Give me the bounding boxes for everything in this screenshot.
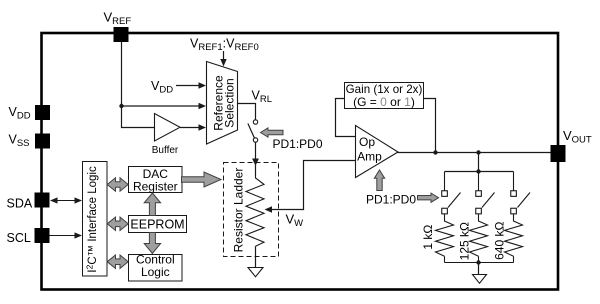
arrow EEPROM-DAC gray up (144, 193, 160, 216)
arrow I2C-Control gray double (107, 255, 128, 268)
op-amp (356, 126, 399, 178)
node PD bottom junction (476, 260, 480, 264)
buffer amplifier (155, 114, 181, 142)
svg-text:Logic: Logic (141, 265, 170, 279)
wire gain feedback left (336, 99, 356, 137)
pin VDD (35, 105, 50, 120)
svg-text:Selection: Selection (222, 78, 236, 127)
svg-text:I2C™ Interface Logic: I2C™ Interface Logic (85, 166, 100, 273)
svg-text:Resistor Ladder: Resistor Ladder (232, 168, 246, 253)
arrow DAC to ladder gray big (182, 172, 222, 187)
block EEPROM (129, 216, 187, 233)
wire op amp output (398, 152, 551, 154)
wire col1 to rail (444, 256, 446, 262)
gain box (345, 83, 424, 109)
block DAC Register (129, 167, 183, 193)
ground PD network (473, 275, 487, 284)
svg-text:VW: VW (286, 212, 304, 230)
svg-text:PD1:PD0: PD1:PD0 (366, 192, 416, 206)
resistor 125 kOhm (470, 219, 488, 256)
svg-text:SDA: SDA (7, 197, 33, 211)
switch PD (VRL) (253, 120, 257, 124)
wire buffer out to mux input 3 (180, 127, 199, 129)
svg-text:PD1:PD0: PD1:PD0 (273, 137, 323, 151)
wire VREF stub down (122, 42, 155, 128)
svg-text:VOUT: VOUT (563, 128, 592, 146)
arrow PD1:PD0 gray up (op amp) (374, 170, 384, 191)
node PD rail junction (476, 169, 480, 173)
chip outline border (42, 33, 559, 290)
arrow I2C-DAC gray double (107, 178, 128, 191)
wire SDA double arrow (55, 200, 77, 202)
switch PD column 3 (511, 172, 530, 220)
wire switch to ladder (255, 142, 257, 159)
wire ladder to ground (255, 246, 257, 267)
arrow PD1:PD0 gray (left) (261, 128, 284, 137)
ground ladder (248, 268, 263, 277)
svg-text:SCL: SCL (7, 231, 31, 245)
svg-text:VRL: VRL (252, 89, 273, 106)
wire SCL arrow (50, 235, 78, 237)
arrow PD1:PD0 gray right (418, 193, 439, 202)
wire gain right to output (424, 99, 436, 153)
switch PD column 1 (442, 172, 461, 220)
pin VSS (35, 134, 50, 149)
resistor ladder box (224, 163, 279, 257)
wire to PD ground (478, 263, 480, 275)
svg-text:VDD: VDD (9, 105, 31, 122)
node PD network junction (476, 150, 480, 154)
pin VREF (114, 27, 129, 42)
resistor 1 kOhm (436, 219, 454, 256)
switch PD column 2 (476, 172, 495, 220)
wire VREF to mux input 2 (122, 105, 200, 107)
wire VDD to mux input 1 (176, 85, 199, 87)
wire VW wiper to op amp (271, 161, 355, 210)
mux Reference Selection (207, 62, 238, 145)
wire PD rail (445, 171, 514, 173)
resistor 640 kOhm (505, 219, 523, 256)
node feedback junction (433, 150, 437, 154)
svg-text:125 kΩ: 125 kΩ (458, 222, 472, 260)
wire VREF1:VREF0 arrow into mux (223, 51, 225, 60)
svg-text:Register: Register (133, 179, 178, 193)
wire VRL from mux to switch (237, 104, 256, 120)
wire PD bottom rail (445, 262, 514, 264)
svg-text:Op: Op (359, 135, 375, 149)
svg-text:1 kΩ: 1 kΩ (421, 225, 435, 250)
wire col3 to rail (513, 256, 515, 262)
svg-text:(G = 0 or 1): (G = 0 or 1) (353, 95, 415, 109)
svg-text:Amp: Amp (357, 150, 382, 164)
svg-text:Buffer: Buffer (152, 145, 179, 156)
svg-text:VREF: VREF (104, 10, 132, 28)
arrow EEPROM-Control gray down (144, 233, 160, 254)
pin SDA (35, 193, 50, 208)
svg-text:640 kΩ: 640 kΩ (493, 222, 507, 260)
svg-text:VSS: VSS (9, 133, 30, 150)
node VREF junction (119, 104, 123, 108)
pin SCL (35, 228, 50, 243)
pin VOUT (551, 145, 566, 162)
resistor ladder zigzag (246, 176, 264, 246)
svg-text:EEPROM: EEPROM (130, 218, 184, 232)
svg-text:VREF1:VREF0: VREF1:VREF0 (190, 37, 259, 54)
block Control Logic (129, 255, 183, 282)
I2C interface logic block (83, 162, 108, 277)
wire output to PD rail (478, 153, 480, 172)
svg-text:VDD: VDD (151, 79, 173, 96)
wire col2 to rail (478, 256, 480, 262)
arrow I2C-EEPROM gray double (107, 217, 128, 230)
